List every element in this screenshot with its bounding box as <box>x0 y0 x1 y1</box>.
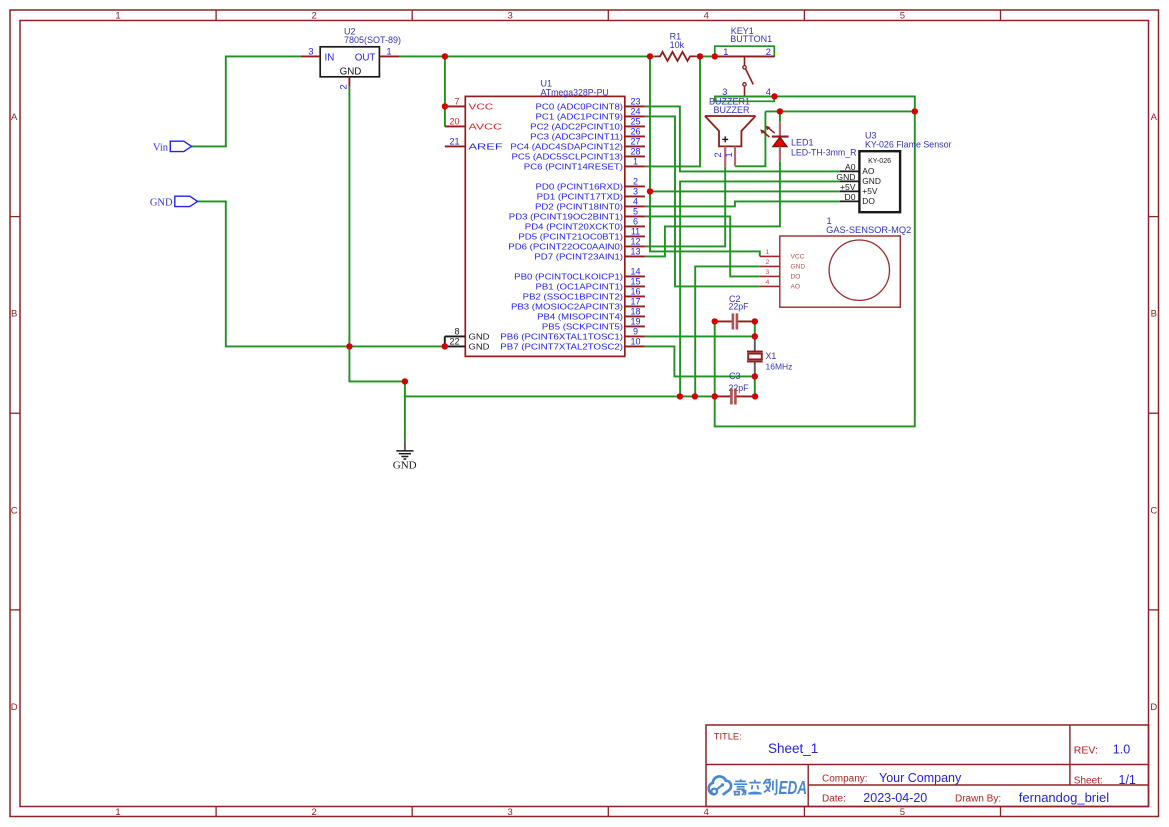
wire R1 to KEY1 pin1 <box>697 55 715 57</box>
MQ2 pin 2 GND <box>760 265 780 267</box>
svg-text:24: 24 <box>630 107 640 117</box>
svg-text:20: 20 <box>449 117 459 127</box>
wire PD3 to MQ2 DO <box>645 216 760 276</box>
U1 pin 2 PD0 <box>625 185 645 187</box>
svg-text:A: A <box>1151 112 1158 123</box>
U1 pin 8 GND <box>445 335 466 337</box>
svg-text:PB0 (PCINT0CLKOICP1): PB0 (PCINT0CLKOICP1) <box>514 273 623 282</box>
svg-text:+5V: +5V <box>840 182 856 192</box>
wire PB7 to X1 bottom <box>645 346 755 376</box>
svg-text:22pF: 22pF <box>729 301 750 311</box>
svg-text:1: 1 <box>115 11 120 22</box>
svg-text:5: 5 <box>633 207 638 217</box>
U1 pin 13 PD7 <box>625 255 645 257</box>
svg-text:PB3 (MOSIOC2APCINT3): PB3 (MOSIOC2APCINT3) <box>511 303 623 312</box>
svg-text:3: 3 <box>633 187 638 197</box>
svg-text:GND: GND <box>862 176 881 186</box>
wire +5V branch to MQ2 VCC <box>650 56 760 256</box>
wire GND flag to U1 GND pins <box>198 201 445 346</box>
svg-text:GND: GND <box>340 66 362 77</box>
U1 pin 4 PD2 <box>625 205 645 207</box>
svg-text:GAS-SENSOR-MQ2: GAS-SENSOR-MQ2 <box>826 225 911 235</box>
MQ2 pin 1 VCC <box>760 255 780 257</box>
svg-text:GND: GND <box>150 197 173 208</box>
svg-text:14: 14 <box>630 267 640 277</box>
svg-text:PD2 (PCINT18INT0): PD2 (PCINT18INT0) <box>535 203 623 212</box>
wire PB6 to C2/X1 <box>645 335 755 337</box>
junction <box>752 373 758 379</box>
svg-text:PC5 (ADC5SCLPCINT13): PC5 (ADC5SCLPCINT13) <box>512 153 624 162</box>
svg-text:PC4 (ADC4SDAPCINT12): PC4 (ADC4SDAPCINT12) <box>510 143 623 152</box>
U1 pin 9 PB6 <box>625 335 645 337</box>
wire LED1 cathode to GND net <box>779 111 781 122</box>
MQ2 pin 3 DO <box>760 275 780 277</box>
junction <box>647 188 653 194</box>
svg-text:10: 10 <box>630 337 640 347</box>
svg-text:4: 4 <box>766 87 771 97</box>
svg-text:AVCC: AVCC <box>469 123 503 132</box>
BUZZER1 pin 2 <box>724 146 726 166</box>
svg-text:Sheet_1: Sheet_1 <box>768 741 818 756</box>
svg-text:Drawn By:: Drawn By: <box>955 794 1001 805</box>
wire Vin to U2 IN <box>192 56 301 146</box>
svg-text:AO: AO <box>862 166 875 176</box>
svg-text:VCC: VCC <box>791 254 805 261</box>
net port GND <box>175 196 198 206</box>
svg-text:2: 2 <box>311 807 316 818</box>
svg-text:AREF: AREF <box>469 143 503 152</box>
svg-text:3: 3 <box>508 11 513 22</box>
junction <box>712 53 718 59</box>
LED1 anode pin <box>779 147 781 162</box>
svg-text:1: 1 <box>766 249 770 256</box>
wire U3 GND to ground rail <box>680 181 840 396</box>
junction <box>752 318 758 324</box>
svg-text:PD1 (PCINT17TXD): PD1 (PCINT17TXD) <box>537 193 624 202</box>
svg-text:7: 7 <box>454 97 459 107</box>
U3 pin +5V <box>840 190 860 192</box>
KEY1 body bottom <box>715 96 775 101</box>
wire U2 GND pin2 down <box>349 87 405 382</box>
junction <box>402 378 408 384</box>
U1 pin 28 PC5 <box>625 155 645 157</box>
svg-text:1: 1 <box>723 47 728 57</box>
wire +5V branch to U3 +5V <box>650 190 840 192</box>
svg-text:19: 19 <box>630 317 640 327</box>
title block <box>706 725 1149 807</box>
svg-text:5: 5 <box>900 11 905 22</box>
wire PC1 to MQ2 AO <box>645 116 760 286</box>
svg-text:DO: DO <box>791 274 801 281</box>
svg-text:EDA: EDA <box>779 778 808 798</box>
svg-text:GND: GND <box>469 333 490 342</box>
wire PD2 to U3 D0 <box>645 201 840 206</box>
junction <box>677 393 683 399</box>
junction <box>647 53 653 59</box>
svg-text:9: 9 <box>633 327 638 337</box>
crystal X1 16MHz <box>754 336 756 351</box>
wire MQ2 GND to ground rail <box>695 266 760 396</box>
svg-text:PD7 (PCINT23AIN1): PD7 (PCINT23AIN1) <box>534 253 623 262</box>
U1 pin 5 PD3 <box>625 215 645 217</box>
U1 pin 21 AREF <box>445 145 466 147</box>
KEY1 pins 1-2 bar <box>715 55 775 57</box>
svg-text:LED1: LED1 <box>791 138 814 148</box>
svg-text:10k: 10k <box>670 40 685 50</box>
svg-text:23: 23 <box>630 97 640 107</box>
svg-text:B: B <box>1151 309 1157 320</box>
svg-text:PB6 (PCINT6XTAL1TOSC1): PB6 (PCINT6XTAL1TOSC1) <box>500 333 623 342</box>
svg-text:4: 4 <box>704 807 709 818</box>
wire PD6 to BUZZER1 pin2 <box>645 166 725 246</box>
svg-text:4: 4 <box>766 279 770 286</box>
wire +5V rail U2 OUT to R1 <box>399 55 655 57</box>
svg-text:1: 1 <box>386 47 391 58</box>
JLC EDA logo <box>709 776 807 798</box>
U1 pin 14 PB0 <box>625 275 645 277</box>
svg-text:PC3 (ADC3PCINT11): PC3 (ADC3PCINT11) <box>530 133 623 142</box>
svg-text:PD0 (PCINT16RXD): PD0 (PCINT16RXD) <box>536 183 624 192</box>
U1 pin 25 PC2 <box>625 125 645 127</box>
svg-text:26: 26 <box>630 127 640 137</box>
svg-text:fernandog_briel: fernandog_briel <box>1019 790 1109 805</box>
svg-text:2: 2 <box>766 259 770 266</box>
junction <box>777 108 783 114</box>
junction <box>692 393 698 399</box>
svg-text:22: 22 <box>449 337 459 347</box>
junction <box>752 333 758 339</box>
svg-text:PD4 (PCINT20XCKT0): PD4 (PCINT20XCKT0) <box>525 223 624 232</box>
junction <box>442 103 448 109</box>
U1 pin 27 PC4 <box>625 145 645 147</box>
svg-text:3: 3 <box>308 47 313 58</box>
svg-text:16: 16 <box>630 287 640 297</box>
svg-text:DO: DO <box>862 196 875 206</box>
net port Vin <box>170 141 191 151</box>
wire KEY1 pin4 to ground rail <box>715 96 915 426</box>
LED1 cathode pin <box>779 122 781 136</box>
svg-text:C3: C3 <box>729 371 741 381</box>
svg-text:4: 4 <box>704 11 709 22</box>
junction <box>771 93 777 99</box>
U1 pin 17 PB3 <box>625 305 645 307</box>
svg-text:C: C <box>11 505 18 516</box>
resistor R1 10k <box>655 52 697 61</box>
U1 pin 7 VCC <box>445 105 466 107</box>
wire RESET KEY1 to PC6 <box>645 56 700 166</box>
svg-text:12: 12 <box>630 237 640 247</box>
svg-text:D0: D0 <box>845 192 856 202</box>
BUZZER1 pin 1 <box>734 146 736 166</box>
wire ground symbol stem <box>404 381 406 441</box>
svg-text:REV:: REV: <box>1074 744 1098 756</box>
LED1 triangle <box>773 137 787 146</box>
junction <box>697 53 703 59</box>
svg-text:BUTTON1: BUTTON1 <box>730 34 772 44</box>
svg-text:8: 8 <box>454 327 459 337</box>
svg-text:TITLE:: TITLE: <box>714 731 742 741</box>
svg-text:PD3 (PCINT19OC2BINT1): PD3 (PCINT19OC2BINT1) <box>509 213 624 222</box>
U1 pin 11 PD5 <box>625 235 645 237</box>
wire ground rail <box>405 395 715 397</box>
svg-text:2: 2 <box>633 177 638 187</box>
wire C2 right to PB6 node <box>754 321 756 336</box>
wire PC0 to U3 AO <box>645 106 840 171</box>
U3 pin GND <box>840 180 860 182</box>
svg-text:2: 2 <box>339 84 350 89</box>
U2 pin 2 GND <box>348 77 350 87</box>
junction <box>442 53 448 59</box>
svg-text:KY-026 Flame Sensor: KY-026 Flame Sensor <box>865 139 952 149</box>
svg-text:PC0 (ADC0PCINT8): PC0 (ADC0PCINT8) <box>536 103 624 112</box>
svg-text:PB4 (MISOPCINT4): PB4 (MISOPCINT4) <box>537 313 623 322</box>
U1 pin 23 PC0 <box>625 105 645 107</box>
svg-text:6: 6 <box>633 217 638 227</box>
svg-text:28: 28 <box>630 147 640 157</box>
svg-text:Your Company: Your Company <box>879 771 962 785</box>
svg-text:LED-TH-3mm_R: LED-TH-3mm_R <box>791 148 857 158</box>
svg-text:2: 2 <box>311 11 316 22</box>
svg-text:PB2 (SSOC1BPCINT2): PB2 (SSOC1BPCINT2) <box>523 293 624 302</box>
svg-text:1: 1 <box>633 157 638 167</box>
svg-text:Vin: Vin <box>153 142 169 153</box>
voltage regulator U2 7805(SOT-89) <box>320 47 379 77</box>
svg-text:2: 2 <box>766 47 771 57</box>
svg-text:25: 25 <box>630 117 640 127</box>
svg-text:Date:: Date: <box>822 794 846 805</box>
U1 pin 16 PB2 <box>625 295 645 297</box>
svg-text:1.0: 1.0 <box>1113 742 1130 756</box>
KEY1 pins 3-4 bar <box>715 95 775 97</box>
wire X1 bottom to C3 right <box>754 376 756 396</box>
junction <box>752 393 758 399</box>
wire GND top segment <box>765 110 914 112</box>
svg-text:OUT: OUT <box>355 52 376 63</box>
U1 pin 10 PB7 <box>625 345 645 347</box>
U1 pin 20 AVCC <box>445 125 466 127</box>
junction <box>442 343 448 349</box>
svg-text:13: 13 <box>630 247 640 257</box>
svg-text:A0: A0 <box>845 162 856 172</box>
svg-text:3: 3 <box>766 269 770 276</box>
svg-text:BUZZER: BUZZER <box>714 105 751 115</box>
svg-text:X1: X1 <box>766 351 777 361</box>
junction <box>712 393 718 399</box>
svg-text:4: 4 <box>633 197 638 207</box>
svg-text:27: 27 <box>630 137 640 147</box>
wire PD7 to LED1 anode <box>645 161 780 256</box>
svg-text:PC1 (ADC1PCINT9): PC1 (ADC1PCINT9) <box>536 113 624 122</box>
svg-text:KY-026: KY-026 <box>868 157 891 165</box>
U1 pin 15 PB1 <box>625 285 645 287</box>
U3 pin DO <box>840 200 860 202</box>
svg-text:AO: AO <box>791 284 801 291</box>
wire VCC drop to U1 pins 7/20 <box>444 56 446 126</box>
svg-text:VCC: VCC <box>469 103 494 112</box>
svg-text:PD5 (PCINT21OC0BT1): PD5 (PCINT21OC0BT1) <box>518 233 623 242</box>
U2 pin 3 IN <box>301 55 320 57</box>
U1 pin 1 PC6 <box>625 165 645 167</box>
svg-text:D: D <box>11 702 18 713</box>
svg-text:PC6 (PCINT14RESET): PC6 (PCINT14RESET) <box>524 163 624 172</box>
svg-text:D: D <box>1150 702 1157 713</box>
svg-text:2023-04-20: 2023-04-20 <box>863 791 927 805</box>
svg-text:IN: IN <box>325 52 335 63</box>
svg-text:5: 5 <box>900 807 905 818</box>
svg-text:PB5 (SCKPCINT5): PB5 (SCKPCINT5) <box>542 323 623 332</box>
U1 pin 3 PD1 <box>625 195 645 197</box>
LED1 cathode bar <box>772 136 789 138</box>
KEY1 switch contact <box>744 56 746 65</box>
svg-text:GND: GND <box>469 343 490 352</box>
U1 pin 19 PB5 <box>625 325 645 327</box>
BUZZER1 plus mark <box>722 136 728 142</box>
svg-text:PD6 (PCINT22OC0AAIN0): PD6 (PCINT22OC0AAIN0) <box>508 243 623 252</box>
svg-text:16MHz: 16MHz <box>766 362 793 372</box>
U2 pin 1 OUT <box>379 55 399 57</box>
svg-text:Sheet:: Sheet: <box>1074 776 1103 787</box>
U1 GND pins 8/22 tie <box>444 336 446 346</box>
wire BUZZER1 pin1 to GND net <box>735 111 765 166</box>
svg-text:C: C <box>1150 505 1157 516</box>
junction <box>346 343 352 349</box>
svg-text:PB1 (OC1APCINT1): PB1 (OC1APCINT1) <box>536 283 624 292</box>
svg-text:ATmega328P-PU: ATmega328P-PU <box>541 87 609 97</box>
svg-text:1: 1 <box>724 152 734 157</box>
svg-text:11: 11 <box>631 227 640 237</box>
svg-text:7805(SOT-89): 7805(SOT-89) <box>344 35 401 45</box>
svg-text:PB7 (PCINT7XTAL2TOSC2): PB7 (PCINT7XTAL2TOSC2) <box>500 343 623 352</box>
svg-text:3: 3 <box>508 807 513 818</box>
svg-text:A: A <box>11 112 18 123</box>
U1 pin 6 PD4 <box>625 225 645 227</box>
svg-text:1/1: 1/1 <box>1119 773 1136 787</box>
U1 pin 18 PB4 <box>625 315 645 317</box>
svg-text:B: B <box>11 309 17 320</box>
junction <box>712 318 718 324</box>
microcontroller U1 ATmega328P-PU <box>465 96 625 356</box>
U1 pin 12 PD6 <box>625 245 645 247</box>
svg-text:21: 21 <box>449 137 459 147</box>
svg-text:1: 1 <box>115 807 120 818</box>
U1 pin 22 GND <box>445 345 466 347</box>
svg-text:17: 17 <box>630 297 640 307</box>
U1 pin 26 PC3 <box>625 135 645 137</box>
svg-text:2: 2 <box>713 152 723 157</box>
U3 pin AO <box>840 170 860 172</box>
svg-text:GND: GND <box>393 460 417 472</box>
svg-text:Company:: Company: <box>822 774 868 785</box>
LED1 emission arrows <box>768 127 775 133</box>
svg-text:GND: GND <box>791 264 806 271</box>
junction <box>912 108 918 114</box>
MQ2 pin 4 AO <box>760 285 780 287</box>
svg-text:PC2 (ADC2PCINT10): PC2 (ADC2PCINT10) <box>530 123 623 132</box>
KEY1 body top <box>715 46 775 56</box>
U1 pin 24 PC1 <box>625 115 645 117</box>
svg-text:3: 3 <box>722 87 727 97</box>
svg-text:18: 18 <box>630 307 640 317</box>
svg-text:+5V: +5V <box>862 186 878 196</box>
svg-text:15: 15 <box>630 277 640 287</box>
ground <box>404 441 406 451</box>
svg-text:GND: GND <box>836 172 855 182</box>
